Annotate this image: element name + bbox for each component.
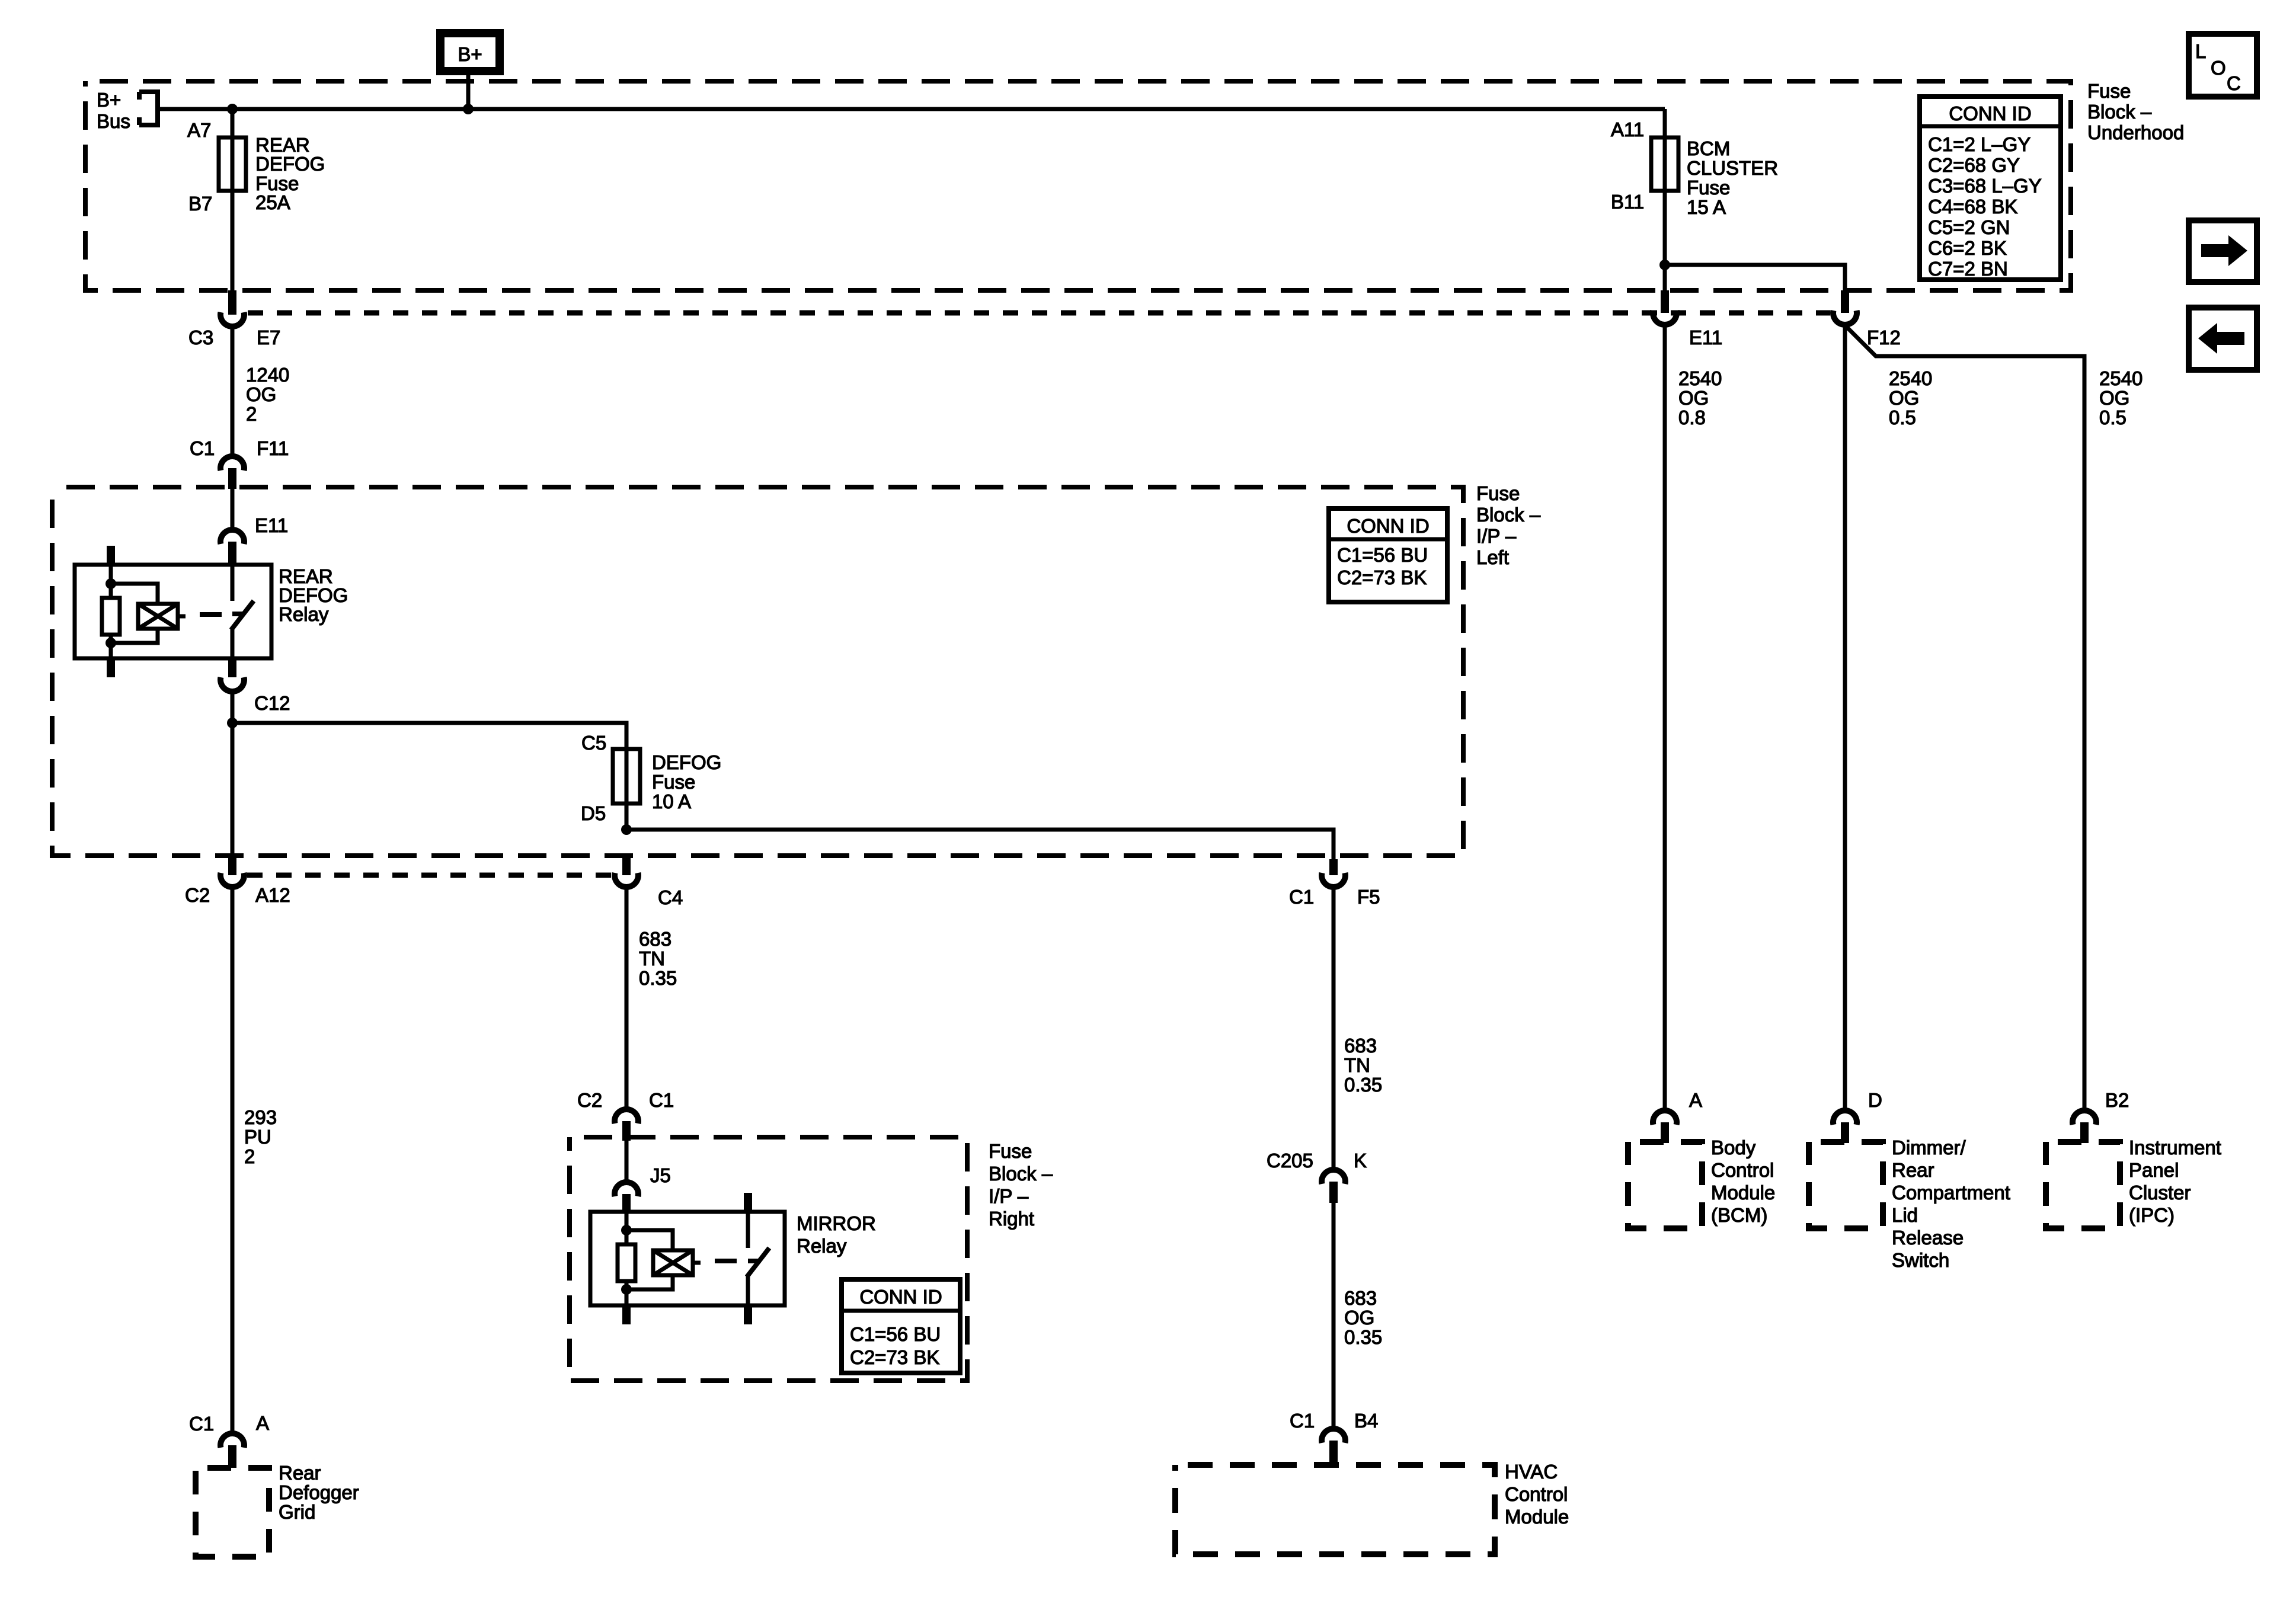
svg-text:I/P –: I/P – <box>1476 525 1517 547</box>
relay mirror switch top pin stub <box>744 1193 752 1212</box>
svg-text:E11: E11 <box>255 514 288 536</box>
svg-text:C4=68 BK: C4=68 BK <box>1928 196 2017 217</box>
svg-text:B4: B4 <box>1354 1410 1378 1432</box>
svg-text:Relay: Relay <box>279 603 329 625</box>
svg-text:Relay: Relay <box>797 1235 847 1257</box>
connector C2/C1 arc (mirror) <box>615 1109 638 1124</box>
svg-text:Underhood: Underhood <box>2087 121 2184 143</box>
node mirror coil bottom <box>621 1284 632 1295</box>
svg-text:DEFOG: DEFOG <box>255 153 325 175</box>
connector C12 pin stub <box>228 658 236 677</box>
svg-text:C1: C1 <box>189 1413 214 1435</box>
wire 2540 OG 0.8 <box>1663 324 1667 1108</box>
svg-text:CLUSTER: CLUSTER <box>1687 157 1778 179</box>
svg-text:A12: A12 <box>255 884 290 906</box>
svg-text:C2: C2 <box>185 884 210 906</box>
fuse REAR DEFOG 25A <box>219 137 246 191</box>
connector C1/F5 arc <box>1322 873 1345 887</box>
Fuse Block I/P Right dashed box <box>570 1137 967 1381</box>
wire 2540 OG 0.5 (dimmer) <box>1843 324 1847 1108</box>
connector C3/E7 stub <box>228 290 236 315</box>
connector A arc (BCM) <box>1653 1110 1677 1125</box>
svg-text:2540: 2540 <box>1889 367 1932 389</box>
wire mirror actuator dash <box>715 1259 737 1263</box>
svg-text:B+: B+ <box>458 43 482 65</box>
svg-text:K: K <box>1354 1150 1367 1172</box>
CONN ID table (I/P Right) <box>842 1279 960 1373</box>
connector C205/K arc <box>1322 1170 1345 1184</box>
svg-text:Fuse: Fuse <box>989 1140 1032 1162</box>
svg-text:C1: C1 <box>1290 1410 1315 1432</box>
connector C4 arc <box>615 873 638 887</box>
connector J5 stub <box>622 1194 631 1212</box>
svg-text:Switch: Switch <box>1892 1249 1949 1271</box>
wire bus to REAR DEFOG fuse <box>231 109 235 137</box>
fuse DEFOG 10A <box>613 749 640 804</box>
svg-text:0.35: 0.35 <box>1344 1326 1382 1348</box>
svg-text:C7=2 BN: C7=2 BN <box>1928 258 2008 280</box>
left arrow box <box>2189 308 2257 370</box>
connector F12 stub <box>1841 290 1849 313</box>
node D5 junction <box>621 824 632 835</box>
wire F11 to E11 <box>231 489 235 527</box>
connector C1/F5 stub <box>1329 859 1338 875</box>
svg-text:C1: C1 <box>190 437 215 459</box>
wire switch fixed contact <box>231 565 235 601</box>
svg-text:C6=2 BK: C6=2 BK <box>1928 237 2007 259</box>
svg-text:F5: F5 <box>1357 886 1380 908</box>
connector C4 stub <box>622 856 631 875</box>
relay MIRROR box <box>590 1212 785 1305</box>
svg-text:Left: Left <box>1476 546 1509 568</box>
fuse BCM CLUSTER 15A <box>1651 137 1678 191</box>
svg-text:C5: C5 <box>581 732 606 754</box>
svg-text:C5=2 GN: C5=2 GN <box>1928 216 2010 238</box>
Fuse Block Underhood dashed box <box>85 81 2071 290</box>
node relay coil bottom <box>105 638 116 648</box>
connector C3/E7 arc <box>220 312 244 327</box>
wire 683 TN 0.35 (C4 to mirror) <box>625 886 629 1107</box>
connector D arc (dimmer) <box>1833 1110 1857 1125</box>
connector C1/B4 arc <box>1322 1429 1345 1443</box>
svg-text:2540: 2540 <box>2099 367 2142 389</box>
wire switch to C12 <box>231 628 235 658</box>
wire fuse B7 down <box>231 191 235 290</box>
wire F12 branch to IPC <box>1845 325 2084 1108</box>
svg-text:Fuse: Fuse <box>2087 80 2131 102</box>
svg-text:Block –: Block – <box>1476 504 1541 526</box>
connector E11 stub <box>228 542 236 565</box>
svg-text:10 A: 10 A <box>652 790 691 812</box>
svg-text:Instrument: Instrument <box>2129 1137 2221 1158</box>
svg-text:Right: Right <box>989 1208 1034 1230</box>
wire 293 PU 2 <box>231 886 235 1431</box>
dotted connector row 2 <box>247 873 612 878</box>
svg-text:Control: Control <box>1711 1159 1774 1181</box>
svg-text:293: 293 <box>244 1106 277 1128</box>
svg-text:Cluster: Cluster <box>2129 1182 2191 1204</box>
svg-text:Bus: Bus <box>97 110 130 132</box>
relay coil bottom pin stub <box>107 658 115 677</box>
CONN ID table (I/P Left) <box>1329 508 1447 602</box>
wire D5 junction to F5 <box>626 830 1334 859</box>
svg-text:Dimmer/: Dimmer/ <box>1892 1137 1966 1158</box>
wire mirror switch fixed contact <box>746 1212 750 1248</box>
connector J5 arc <box>615 1182 638 1196</box>
svg-text:B7: B7 <box>188 193 212 215</box>
svg-text:OG: OG <box>1344 1307 1374 1329</box>
svg-text:0.8: 0.8 <box>1678 406 1706 428</box>
svg-text:DEFOG: DEFOG <box>652 751 721 773</box>
switch contact tick mirror relay <box>748 1259 759 1263</box>
connector C1/F11 arc <box>220 456 244 470</box>
coil relay winding box <box>138 604 178 629</box>
svg-text:OG: OG <box>1889 387 1919 409</box>
svg-text:C: C <box>2227 72 2241 94</box>
svg-text:Rear: Rear <box>279 1462 321 1484</box>
wire to J5 <box>625 1141 629 1180</box>
svg-text:OG: OG <box>246 383 276 405</box>
svg-text:MIRROR: MIRROR <box>797 1212 876 1234</box>
svg-text:F11: F11 <box>257 437 289 459</box>
node defog branch junction <box>227 718 238 728</box>
svg-text:TN: TN <box>1344 1054 1370 1076</box>
wire left to C2/A12 <box>231 723 235 856</box>
wire relay coil branch <box>109 565 113 598</box>
svg-text:C4: C4 <box>658 886 683 908</box>
svg-text:Fuse: Fuse <box>1687 177 1730 199</box>
svg-text:J5: J5 <box>650 1164 671 1186</box>
svg-text:0.5: 0.5 <box>1889 406 1916 428</box>
svg-text:C1: C1 <box>1289 886 1314 908</box>
B+ Bus label <box>97 89 130 132</box>
svg-text:C2=73 BK: C2=73 BK <box>850 1346 939 1368</box>
svg-text:A7: A7 <box>187 119 211 141</box>
resistor mirror relay <box>618 1244 635 1281</box>
svg-text:0.35: 0.35 <box>639 967 677 989</box>
svg-text:C2=68 GY: C2=68 GY <box>1928 154 2020 176</box>
svg-text:A: A <box>256 1412 269 1434</box>
wire 683 TN 0.35 (F5 to C205) <box>1332 886 1336 1167</box>
Fuse Block Underhood label <box>2087 80 2184 143</box>
wire B11 down <box>1663 191 1667 290</box>
relay mirror coil bottom pin stub <box>622 1305 631 1324</box>
wire bus to BCM CLUSTER fuse <box>1663 109 1667 137</box>
svg-text:(BCM): (BCM) <box>1711 1204 1767 1226</box>
connector C1/F11 stub <box>228 468 236 489</box>
connector C2/A12 arc <box>220 873 244 887</box>
wire actuator dash <box>200 612 222 617</box>
Rear Defogger Grid dashed box <box>196 1468 269 1557</box>
wire mirror coil branch <box>625 1212 629 1244</box>
switch blade relay <box>231 601 254 630</box>
connector E11 arc (relay feed) <box>220 530 244 544</box>
node bus/A7 junction <box>227 104 238 114</box>
connector C205/K stub <box>1329 1182 1338 1203</box>
svg-text:B11: B11 <box>1611 191 1644 213</box>
svg-text:CONN ID: CONN ID <box>1949 103 2031 124</box>
svg-text:C1=56 BU: C1=56 BU <box>850 1323 941 1345</box>
connector C2/A12 stub <box>228 856 236 875</box>
svg-text:683: 683 <box>639 928 671 950</box>
connector C1/A stub <box>228 1445 236 1468</box>
svg-text:Fuse: Fuse <box>1476 482 1520 504</box>
Instrument Panel Cluster dashed box <box>2046 1142 2120 1228</box>
connector A stub <box>1661 1122 1669 1143</box>
svg-text:(IPC): (IPC) <box>2129 1204 2175 1226</box>
svg-text:OG: OG <box>1678 387 1709 409</box>
svg-text:HVAC: HVAC <box>1505 1461 1558 1483</box>
Fuse Block I/P Left dashed box <box>52 487 1463 856</box>
svg-text:C2: C2 <box>577 1089 602 1111</box>
svg-text:C1: C1 <box>649 1089 674 1111</box>
svg-text:Lid: Lid <box>1892 1204 1918 1226</box>
svg-text:Module: Module <box>1505 1506 1569 1528</box>
svg-text:2: 2 <box>244 1145 255 1167</box>
wire B+ drop to bus <box>466 75 471 109</box>
node relay coil top <box>105 578 116 589</box>
svg-text:CONN ID: CONN ID <box>859 1286 942 1308</box>
switch contact tick relay <box>232 612 244 616</box>
connector E11 arc (underhood) <box>1653 311 1677 325</box>
svg-text:0.5: 0.5 <box>2099 406 2126 428</box>
svg-text:Compartment: Compartment <box>1892 1182 2010 1204</box>
connector C1/B4 stub <box>1329 1441 1338 1465</box>
svg-text:D: D <box>1868 1089 1882 1111</box>
svg-text:Block –: Block – <box>2087 101 2152 123</box>
svg-text:C12: C12 <box>254 692 290 714</box>
resistor relay <box>102 598 120 635</box>
svg-text:Fuse: Fuse <box>652 771 695 793</box>
CONN ID table (Fuse Block Underhood) <box>1920 97 2061 280</box>
wire mirror switch lower <box>746 1275 750 1305</box>
svg-text:CONN ID: CONN ID <box>1347 515 1429 537</box>
Fuse Block I/P Right label <box>989 1140 1053 1230</box>
HVAC Control Module dashed box <box>1175 1465 1495 1554</box>
svg-text:Body: Body <box>1711 1137 1756 1158</box>
wire 2540 OG 0.5 (IPC) <box>2099 367 2142 428</box>
wire mirror coil to actuator <box>693 1261 701 1265</box>
svg-text:683: 683 <box>1344 1287 1377 1309</box>
relay REAR DEFOG box <box>75 565 271 658</box>
Body Control Module dashed box <box>1628 1142 1702 1228</box>
svg-text:1240: 1240 <box>246 364 289 386</box>
wire junction to DEFOG fuse <box>232 723 626 749</box>
svg-text:TN: TN <box>639 948 665 969</box>
B+ power symbol box <box>440 33 500 71</box>
connector C1/A arc <box>220 1433 244 1448</box>
connector D stub <box>1841 1122 1849 1143</box>
svg-text:B2: B2 <box>2105 1089 2129 1111</box>
svg-text:C3=68 L–GY: C3=68 L–GY <box>1928 175 2042 197</box>
svg-text:D5: D5 <box>581 802 606 824</box>
wire B+ bus <box>158 107 1665 111</box>
svg-text:F12: F12 <box>1867 327 1901 348</box>
wire mirror coil loop <box>626 1230 673 1289</box>
svg-text:OG: OG <box>2099 387 2129 409</box>
svg-text:E7: E7 <box>257 327 280 348</box>
svg-text:C205: C205 <box>1267 1150 1313 1172</box>
wire mirror resistor bottom <box>625 1281 629 1305</box>
wire coil to actuator <box>178 614 186 619</box>
svg-text:Control: Control <box>1505 1483 1568 1505</box>
svg-text:683: 683 <box>1344 1035 1377 1057</box>
svg-text:C1=2 L–GY: C1=2 L–GY <box>1928 133 2030 155</box>
svg-text:Release: Release <box>1892 1227 1964 1249</box>
connector F12 arc <box>1833 311 1857 325</box>
dotted connector row 1 <box>248 311 1830 316</box>
wire 683 OG 0.35 <box>1332 1203 1336 1427</box>
wire relay coil loop <box>111 584 158 643</box>
svg-text:2: 2 <box>246 403 257 425</box>
svg-text:15 A: 15 A <box>1687 196 1726 218</box>
connector E11 stub (underhood) <box>1661 290 1669 313</box>
svg-text:B+: B+ <box>97 89 121 111</box>
svg-text:A: A <box>1689 1089 1702 1111</box>
relay mirror switch bottom pin stub <box>744 1305 752 1324</box>
svg-text:C2=73 BK: C2=73 BK <box>1337 566 1427 588</box>
wire B11 branch to F12 <box>1665 265 1845 290</box>
wire C12 to junction <box>231 691 235 723</box>
svg-text:2540: 2540 <box>1678 367 1722 389</box>
wire resistor bottom <box>109 635 113 658</box>
svg-text:Rear: Rear <box>1892 1159 1934 1181</box>
node bus/B+ junction <box>463 104 474 114</box>
connector C12 arc <box>220 677 244 692</box>
svg-text:Module: Module <box>1711 1182 1775 1204</box>
relay coil top pin stub <box>107 546 115 565</box>
svg-text:25A: 25A <box>255 191 290 213</box>
connector C2/C1 stub <box>622 1121 631 1141</box>
node mirror coil top <box>621 1225 632 1235</box>
svg-text:C1=56 BU: C1=56 BU <box>1337 544 1428 566</box>
coil mirror winding box <box>653 1250 693 1275</box>
switch blade mirror relay <box>747 1248 769 1277</box>
svg-text:C3: C3 <box>188 327 213 348</box>
wire 1240 OG 2 <box>231 326 235 454</box>
svg-text:0.35: 0.35 <box>1344 1074 1382 1096</box>
svg-text:L: L <box>2195 40 2206 62</box>
connector B2 stub <box>2080 1122 2089 1143</box>
connector B2 arc (IPC) <box>2073 1110 2096 1125</box>
svg-text:Block –: Block – <box>989 1163 1053 1185</box>
svg-text:Panel: Panel <box>2129 1159 2179 1181</box>
wire D5 to junction <box>625 804 629 830</box>
node B11 branch junction <box>1659 260 1670 270</box>
svg-text:BCM: BCM <box>1687 137 1730 159</box>
svg-text:O: O <box>2211 57 2226 79</box>
svg-text:Defogger: Defogger <box>279 1481 359 1503</box>
LOC page symbol box <box>2189 34 2257 97</box>
B+ Bus bracket <box>139 89 158 127</box>
Fuse Block I/P Left label <box>1476 482 1541 568</box>
svg-text:E11: E11 <box>1689 327 1722 348</box>
svg-text:PU: PU <box>244 1126 271 1148</box>
svg-text:I/P –: I/P – <box>989 1185 1029 1207</box>
svg-text:A11: A11 <box>1611 119 1644 140</box>
right arrow box <box>2189 220 2257 282</box>
Dimmer Rear Compartment Lid Release Switch dashed box <box>1809 1142 1883 1228</box>
svg-text:Grid: Grid <box>279 1501 315 1523</box>
